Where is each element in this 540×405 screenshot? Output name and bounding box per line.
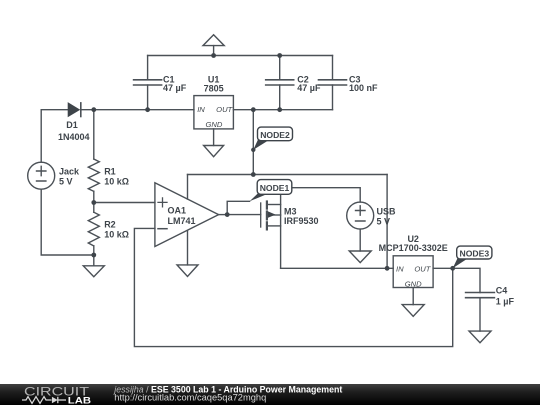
- svg-text:5 V: 5 V: [59, 177, 73, 187]
- svg-text:R1: R1: [104, 166, 116, 176]
- svg-text:IN: IN: [197, 105, 205, 114]
- svg-text:Jack: Jack: [59, 166, 80, 176]
- svg-text:1N4004: 1N4004: [58, 132, 90, 142]
- svg-text:GND: GND: [405, 280, 422, 289]
- svg-text:LAB: LAB: [68, 396, 91, 405]
- svg-text:47 µF: 47 µF: [163, 83, 187, 93]
- svg-text:10 kΩ: 10 kΩ: [104, 229, 129, 239]
- svg-text:7805: 7805: [204, 84, 224, 94]
- svg-text:GND: GND: [205, 120, 222, 129]
- svg-text:MCP1700-3302E: MCP1700-3302E: [379, 243, 448, 253]
- svg-text:C4: C4: [496, 286, 508, 296]
- svg-text:5 V: 5 V: [377, 216, 391, 226]
- svg-text:NODE2: NODE2: [260, 130, 290, 140]
- svg-text:1 µF: 1 µF: [496, 296, 515, 306]
- svg-text:M3: M3: [284, 206, 297, 216]
- svg-text:10 kΩ: 10 kΩ: [104, 176, 129, 186]
- svg-text:D1: D1: [66, 120, 78, 130]
- svg-text:LM741: LM741: [168, 216, 196, 226]
- svg-text:OUT: OUT: [414, 265, 431, 274]
- svg-text:USB: USB: [377, 206, 397, 216]
- svg-text:100 nF: 100 nF: [349, 83, 378, 93]
- svg-text:NODE1: NODE1: [260, 183, 290, 193]
- svg-text:47 µF: 47 µF: [297, 83, 321, 93]
- svg-text:http://circuitlab.com/caqe5qa7: http://circuitlab.com/caqe5qa72mghq: [114, 393, 266, 403]
- svg-text:OA1: OA1: [168, 206, 187, 216]
- svg-text:NODE3: NODE3: [459, 248, 489, 258]
- svg-text:R2: R2: [104, 219, 116, 229]
- svg-text:IRF9530: IRF9530: [284, 216, 319, 226]
- svg-text:OUT: OUT: [216, 105, 233, 114]
- svg-text:IN: IN: [396, 265, 404, 274]
